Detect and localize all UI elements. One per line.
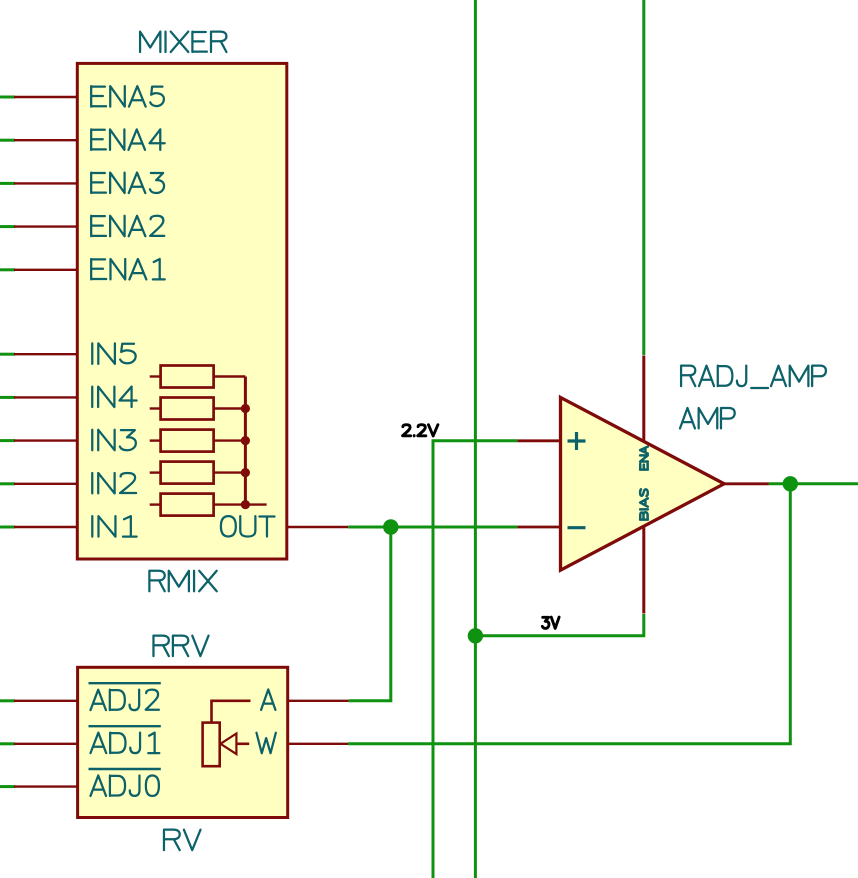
label RMIX [149, 571, 216, 591]
pin ADJ2 [14, 700, 78, 702]
pin ENA3 [14, 182, 78, 184]
wire 2.2V net [433, 441, 517, 878]
plus symbol [568, 432, 586, 450]
potentiometer top lead [212, 701, 251, 723]
wire ENA4 stub [0, 139, 15, 142]
wire ADJ0 stub [0, 785, 15, 788]
potentiometer body [203, 723, 220, 767]
resistor R3 body [161, 430, 214, 452]
junction output net [783, 476, 798, 491]
resistor R2 lead right [214, 407, 246, 409]
pin + of opamp [517, 439, 560, 442]
wire vertical net through page [474, 0, 477, 878]
wire output net right [769, 482, 858, 485]
wire IN1 stub [0, 526, 15, 529]
pin A of rrv [287, 700, 349, 702]
junction bus at y=440.6 [241, 436, 250, 445]
pin name ADJ0 [90, 775, 158, 795]
wire OUT net to minus pin [348, 526, 517, 529]
pin IN2 [14, 483, 78, 485]
overline ADJ1 [89, 725, 161, 727]
pin name W [256, 733, 275, 753]
pin name IN2 [92, 473, 136, 493]
pin name ENA2 [91, 216, 164, 236]
potentiometer wiper lead [236, 742, 249, 745]
symbol body RMIX mixer [77, 63, 286, 559]
label RADJ_AMP [681, 366, 826, 388]
resistor R3 lead right [214, 439, 246, 441]
pin W of rrv [287, 743, 348, 745]
overline ADJ0 [89, 768, 161, 770]
pin name ENA3 [91, 173, 164, 193]
resistor R5 lead right [214, 503, 246, 505]
pin ENA2 [14, 225, 78, 227]
pin ADJ0 [14, 785, 78, 787]
wire ADJ1 stub [0, 742, 15, 745]
label RV [164, 830, 201, 850]
wire ENA net vertical [642, 0, 645, 355]
pin ENA4 [14, 139, 78, 141]
pin name IN5 [92, 343, 135, 363]
pin ADJ1 [14, 743, 78, 745]
op-amp AMP body [561, 397, 725, 570]
pin name ENA1 [91, 259, 165, 279]
wire summing bus [244, 377, 247, 505]
label 3V [542, 617, 559, 628]
wire bus stub right [245, 503, 266, 505]
resistor R4 lead right [214, 471, 246, 473]
junction bus at y=408.5 [241, 404, 250, 413]
wire ENA3 stub [0, 182, 15, 185]
pin - of opamp [517, 526, 560, 529]
wire OUT down to pin A [349, 527, 391, 701]
wire ENA5 stub [0, 96, 15, 99]
minus symbol [568, 526, 586, 529]
wire IN2 stub [0, 482, 15, 485]
resistor R5 lead left [150, 503, 161, 505]
pin name IN1 [92, 516, 136, 536]
junction OUT net [383, 519, 398, 534]
resistor R1 lead left [150, 375, 161, 377]
pin IN1 [14, 526, 78, 528]
potentiometer wiper arrow [221, 734, 237, 755]
pin name IN4 [92, 387, 136, 407]
label 2.2V [403, 425, 438, 436]
pin name ADJ2 [90, 690, 158, 710]
wire 3V to BIAS [475, 614, 643, 636]
wire ENA1 stub [0, 268, 15, 271]
wire IN5 stub [0, 353, 15, 356]
resistor R3 lead left [150, 439, 161, 441]
resistor R5 body [161, 494, 214, 516]
label AMP [680, 408, 735, 428]
overline ADJ2 [89, 682, 161, 684]
label MIXER [140, 32, 226, 52]
resistor R2 body [161, 398, 214, 420]
pin name ADJ1 [90, 733, 159, 753]
pin output of opamp [724, 482, 769, 485]
junction bus at y=472.6 [241, 468, 250, 477]
pin name BIAS rotated [640, 489, 648, 519]
pin name ENA4 [91, 129, 165, 149]
junction 3V [468, 628, 483, 643]
resistor R2 lead left [150, 407, 161, 409]
wire IN4 stub [0, 396, 15, 399]
resistor R4 body [161, 462, 214, 484]
pin name ENA5 [91, 86, 164, 106]
symbol body RV potentiometer [78, 667, 288, 817]
pin name ENA rotated [640, 447, 648, 470]
pin BIAS of opamp [642, 526, 645, 614]
pin name OUT [221, 516, 275, 536]
wire ADJ2 stub [0, 699, 15, 702]
pin IN5 [14, 353, 78, 355]
pin name A [261, 689, 275, 709]
pin IN4 [14, 396, 78, 398]
junction bus at y=504.6 [241, 500, 250, 509]
pin ENA of opamp [642, 356, 645, 442]
resistor R1 body [161, 366, 214, 388]
pin ENA1 [14, 269, 78, 271]
label RRV [153, 636, 208, 656]
resistor R4 lead left [150, 471, 161, 473]
wire output net down to W [348, 484, 790, 744]
pin OUT of mixer [286, 526, 348, 528]
resistor R1 lead right [214, 375, 246, 377]
pin ENA5 [14, 96, 78, 98]
wire IN3 stub [0, 439, 15, 442]
pin IN3 [14, 439, 78, 441]
wire ENA2 stub [0, 225, 15, 228]
pin name IN3 [92, 430, 136, 450]
